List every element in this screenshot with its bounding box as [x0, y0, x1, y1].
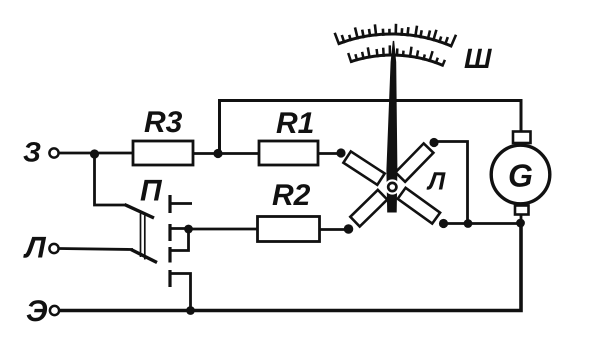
wire: terminal З to R3 — [59, 152, 134, 155]
needle pivot hub — [385, 179, 400, 194]
svg-text:R2: R2 — [272, 179, 311, 212]
junction node generator bottom — [516, 219, 525, 228]
resistor R3 — [133, 141, 193, 165]
scale lower arc — [351, 55, 443, 65]
switch contact 4 — [168, 270, 171, 287]
scale lower arc ticks — [348, 45, 445, 66]
wire: R1 to logometer top-left terminal — [318, 152, 341, 155]
wire: bottom rail from terminal Э to generator — [59, 223, 521, 311]
wire: logometer bottom-right terminal to generator bottom — [443, 222, 521, 225]
svg-text:Э: Э — [26, 295, 48, 328]
logometer terminal dot bottom-left — [344, 224, 354, 234]
wire: terminal Л to switch lever 2 — [59, 249, 134, 250]
resistor R1 — [259, 141, 318, 165]
switch П lever 1 — [125, 205, 155, 219]
wire: logometer top-right terminal over to down-lead — [436, 142, 468, 224]
switch П mechanical link — [141, 214, 145, 260]
switch contact 3 — [168, 247, 171, 263]
logometer coil bottom-left — [350, 190, 387, 227]
terminal Э circle — [50, 306, 59, 315]
junction node R3-R1-bus — [213, 149, 222, 158]
switch contact 2 — [168, 224, 171, 241]
terminal З circle — [49, 148, 58, 157]
svg-text:Ш: Ш — [464, 43, 492, 74]
logometer terminal dot top-left — [336, 148, 345, 157]
wire: link between contact 2 and contact 3 leads — [171, 229, 189, 251]
svg-text:Л: Л — [426, 167, 446, 195]
generator bottom brush block — [515, 206, 529, 215]
junction node contact 4 on bottom rail — [186, 306, 195, 315]
junction node at З branch — [90, 149, 99, 158]
svg-text:З: З — [23, 137, 41, 168]
logometer coil bottom-right — [398, 188, 440, 224]
generator top brush block — [513, 132, 531, 144]
logometer terminal dot top-right — [429, 138, 438, 147]
logometer terminal dot bottom-right — [439, 219, 448, 228]
terminal Л circle — [49, 244, 58, 253]
wire: branch from З node down to switch lever 1 — [95, 154, 127, 206]
junction node contacts 2-3 to R2 — [184, 225, 193, 234]
svg-text:R1: R1 — [276, 107, 314, 140]
svg-text:П: П — [140, 175, 163, 208]
scale upper arc — [339, 34, 452, 46]
wire: contact 1 stub lead — [171, 202, 192, 205]
meter needle — [387, 41, 397, 212]
logometer coil top-right — [395, 143, 433, 181]
junction node right lead on coil wire — [464, 219, 473, 228]
generator G circle — [491, 145, 550, 204]
logometer coil top-left — [343, 151, 384, 184]
resistor R2 — [258, 217, 320, 242]
wire: R2 to logometer bottom-left terminal — [320, 228, 347, 231]
scale upper arc ticks — [335, 24, 456, 48]
wire: generator bottom lead — [520, 215, 523, 224]
svg-text:R3: R3 — [144, 106, 183, 139]
switch П lever 2 — [131, 250, 157, 263]
wire: contact 4 lead down to bottom rail — [171, 274, 191, 311]
switch contact 1 — [168, 195, 171, 213]
wire: R3 to R1 through junction — [193, 152, 259, 155]
svg-text:Л: Л — [23, 231, 47, 264]
svg-text:G: G — [508, 158, 533, 194]
wire: switch contact 2-3 to R2 — [188, 228, 258, 231]
wire: top bus from R3-R1 junction to generator — [220, 101, 522, 154]
